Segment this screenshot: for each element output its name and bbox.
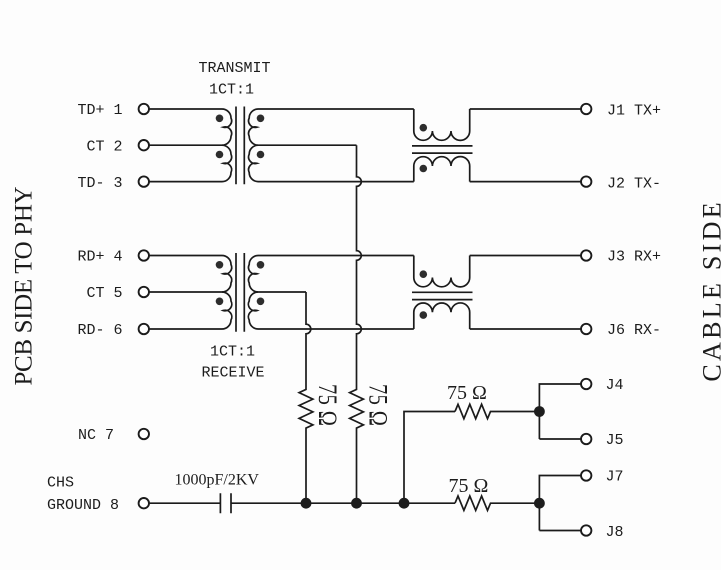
svg-text:CT 2: CT 2: [87, 138, 123, 155]
wire T1 secondary CT to node: [258, 144, 357, 146]
pin J7 terminal: [581, 470, 591, 480]
wire capacitor C1 to ground bus: [231, 502, 455, 504]
svg-text:TRANSMIT: TRANSMIT: [199, 60, 271, 77]
svg-text:CT 5: CT 5: [87, 285, 123, 302]
wire pin6 to T2 primary: [149, 328, 222, 330]
wire T1 CT vertical with hops and resistor R2 75ohm: [350, 145, 364, 503]
transformer T1 primary winding upper half: [222, 109, 232, 145]
svg-text:75 Ω: 75 Ω: [449, 475, 489, 497]
junction node on ground bus at R3 branch: [399, 498, 410, 509]
wire pin1 to T1 primary: [149, 108, 222, 110]
wire J4/J5 stub: [539, 384, 581, 439]
choke L1 core: [412, 146, 473, 153]
choke L2 top winding: [414, 256, 470, 287]
pin 6 terminal: [139, 324, 149, 334]
wire choke L2 to J6: [470, 328, 581, 330]
pin J4 terminal: [581, 379, 591, 389]
wire T1 secondary top to choke L1: [258, 108, 414, 110]
pin 8 terminal: [139, 498, 149, 508]
wire T2 secondary bottom to choke L2: [258, 328, 414, 330]
svg-text:75 Ω: 75 Ω: [312, 384, 341, 426]
wire choke L1 to J1: [470, 108, 581, 110]
wire pin5 to T2 primary CT: [149, 291, 222, 293]
resistor R4 75ohm on ground bus: [455, 496, 539, 510]
transformer T1 primary dot upper: [216, 115, 224, 123]
pin J2 terminal: [581, 176, 591, 186]
junction node at J4/J5 split: [534, 406, 545, 417]
choke L1 bottom winding: [414, 157, 470, 182]
pin J3 terminal: [581, 250, 591, 260]
svg-text:PCB SIDE TO PHY: PCB SIDE TO PHY: [10, 186, 37, 385]
svg-text:TD+ 1: TD+ 1: [78, 102, 123, 119]
wire T2 secondary CT to node: [258, 291, 306, 293]
svg-text:1CT:1: 1CT:1: [210, 343, 255, 360]
transformer T1 primary dot lower: [216, 151, 224, 159]
transformer T2 secondary winding upper half: [249, 256, 258, 293]
svg-text:J3 RX+: J3 RX+: [607, 249, 661, 266]
choke L2 top dot: [420, 270, 428, 278]
choke L2 core: [412, 292, 473, 299]
wire J7/J8 stub: [539, 476, 581, 531]
choke L2 bottom dot: [420, 311, 428, 319]
svg-text:GROUND 8: GROUND 8: [47, 497, 119, 514]
pin 3 terminal: [139, 176, 149, 186]
junction node on ground bus at R1: [301, 498, 312, 509]
pin 5 terminal: [139, 287, 149, 297]
choke L1 top dot: [420, 124, 428, 132]
transformer T1 secondary winding lower half: [249, 145, 258, 181]
pin 1 terminal: [139, 104, 149, 114]
svg-text:NC 7: NC 7: [78, 427, 114, 444]
svg-text:J6 RX-: J6 RX-: [607, 322, 661, 339]
transformer T1 secondary winding upper half: [249, 109, 258, 145]
svg-text:RD- 6: RD- 6: [78, 322, 123, 339]
transformer T2 primary dot lower: [216, 298, 224, 306]
wire T1 secondary bottom to choke L1: [258, 181, 414, 183]
transformer T2 secondary dot upper: [257, 261, 265, 269]
junction node at J7/J8 split: [534, 498, 545, 509]
svg-text:J4: J4: [606, 377, 624, 394]
wire choke L2 to J3: [470, 255, 581, 257]
svg-text:1CT:1: 1CT:1: [209, 82, 254, 99]
wire pin4 to T2 primary: [149, 255, 222, 257]
transformer T2 primary dot upper: [216, 261, 224, 269]
transformer T1 secondary dot upper: [257, 115, 265, 123]
svg-text:J5: J5: [606, 432, 624, 449]
transformer T2 primary winding upper half: [222, 256, 232, 293]
transformer T2 secondary dot lower: [257, 298, 265, 306]
wire T2 CT vertical with hop and resistor R1 75ohm: [299, 292, 313, 503]
transformer T2 core: [236, 253, 244, 332]
pin J8 terminal: [581, 525, 591, 535]
svg-text:1000pF/2KV: 1000pF/2KV: [175, 472, 260, 489]
svg-text:RD+ 4: RD+ 4: [78, 249, 123, 266]
pin J5 terminal: [581, 434, 591, 444]
wire pin3 to T1 primary: [149, 181, 222, 183]
wire pin8 to capacitor C1: [149, 502, 220, 504]
pin 7 terminal (NC): [139, 429, 149, 439]
svg-text:75 Ω: 75 Ω: [363, 384, 392, 426]
svg-text:TD- 3: TD- 3: [78, 175, 123, 192]
choke L2 bottom winding: [414, 303, 470, 329]
wire T2 secondary top to choke L2: [258, 255, 414, 257]
transformer T2 secondary winding lower half: [248, 292, 258, 329]
wire pin2 to T1 primary CT: [149, 144, 222, 146]
svg-text:CABLE SIDE: CABLE SIDE: [697, 199, 721, 382]
svg-text:J7: J7: [606, 469, 624, 486]
wire choke L1 to J2: [470, 181, 581, 183]
transformer T2 primary winding lower half: [222, 292, 232, 329]
transformer T1 core: [236, 107, 244, 185]
svg-text:RECEIVE: RECEIVE: [202, 364, 265, 381]
junction node on ground bus at R2: [351, 498, 362, 509]
transformer T1 primary winding lower half: [222, 145, 232, 181]
capacitor C1 plates: [220, 493, 231, 513]
svg-text:J2 TX-: J2 TX-: [607, 176, 661, 193]
svg-text:J8: J8: [606, 524, 624, 541]
svg-text:CHS: CHS: [47, 475, 74, 492]
svg-text:J1 TX+: J1 TX+: [607, 103, 661, 120]
wire node to resistor R3 branch: [404, 412, 455, 504]
choke L1 bottom dot: [420, 165, 428, 173]
choke L1 top winding: [414, 109, 470, 140]
pin J6 terminal: [581, 324, 591, 334]
resistor R3 75ohm: [455, 404, 539, 418]
transformer T1 secondary dot lower: [257, 151, 265, 159]
pin J1 terminal: [581, 104, 591, 114]
pin 2 terminal: [139, 140, 149, 150]
svg-text:75 Ω: 75 Ω: [447, 382, 487, 404]
pin 4 terminal: [139, 250, 149, 260]
